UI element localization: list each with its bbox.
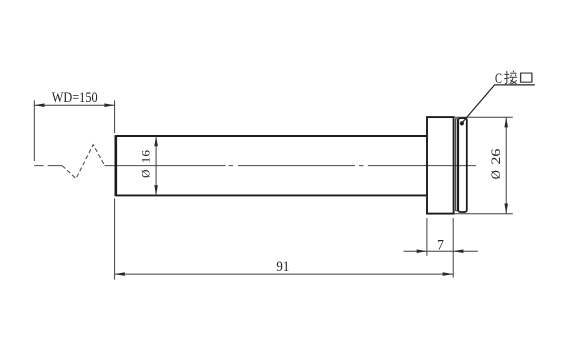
center line main	[105, 165, 477, 167]
dimension dia26	[454, 117, 513, 214]
groove strip	[456, 119, 458, 212]
leader dot	[460, 121, 464, 125]
dia16 arrow down	[154, 185, 158, 195]
C-mount label leader	[462, 85, 535, 123]
dim91 arrow left	[115, 272, 125, 276]
barrel outline	[116, 135, 427, 196]
center line left segments	[34, 165, 62, 167]
dim91 arrow right	[443, 272, 453, 276]
dia26 arrow down	[504, 204, 508, 214]
label glyph jie	[504, 71, 517, 85]
svg-text:Ø: Ø	[140, 170, 152, 178]
dim7 arrow left	[417, 249, 427, 253]
svg-text:Ø: Ø	[489, 170, 503, 179]
WD arrow left	[34, 103, 44, 107]
dimension dia16	[155, 136, 157, 195]
flange block	[427, 117, 454, 214]
svg-text:91: 91	[276, 259, 289, 275]
svg-text:C: C	[495, 71, 502, 87]
dia26 arrow up	[504, 117, 508, 127]
dimension WD=150	[34, 100, 114, 161]
svg-text:WD=150: WD=150	[52, 90, 98, 106]
svg-text:26: 26	[489, 149, 503, 165]
dimension 7	[404, 218, 478, 278]
dim7 arrow right	[453, 249, 463, 253]
dimension 91	[115, 198, 453, 279]
break zigzag	[62, 145, 104, 179]
svg-text:16: 16	[140, 150, 152, 163]
dia16 arrow up	[154, 136, 158, 146]
svg-text:7: 7	[437, 238, 444, 254]
WD arrow right	[104, 103, 114, 107]
label glyph kou	[520, 73, 532, 83]
C-mount ring	[458, 118, 467, 212]
